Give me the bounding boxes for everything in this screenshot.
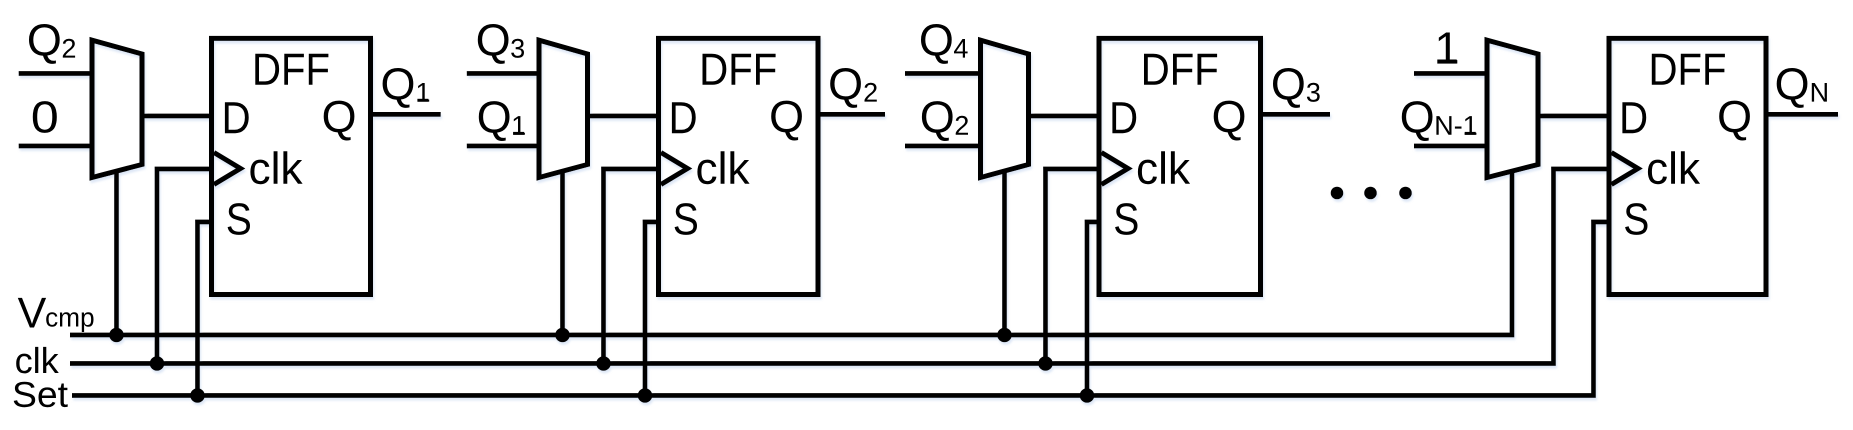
junction dot clk / U3	[1038, 356, 1053, 371]
mux M2	[539, 40, 588, 177]
pin label S (U1)	[228, 203, 250, 235]
pin label clk (U1)	[250, 151, 302, 184]
wire Set bus to U2 S pin	[645, 222, 659, 396]
pin label D (U4)	[1622, 102, 1646, 133]
wire M2 input 2 (row 2)	[467, 144, 539, 149]
flip-flop U2 body (DFF)	[659, 38, 819, 294]
label input 0 (stage 1 row 2)	[33, 101, 57, 133]
pin label Q (U3)	[1214, 101, 1245, 141]
label DFF (U1)	[255, 54, 328, 85]
clk edge triangle U4	[1611, 153, 1638, 185]
label input Q2 (stage 3 row 2)	[922, 101, 968, 141]
pin label S (U2)	[675, 203, 697, 235]
pin label D (U2)	[672, 102, 696, 133]
label input QN-1 (stage 4 row 2)	[1402, 101, 1477, 141]
label output Q3 (stage 3)	[1273, 68, 1320, 108]
junction dot Vcmp / M2 select	[555, 328, 570, 343]
pin label Q (U4)	[1719, 101, 1750, 141]
junction dot clk / U2	[596, 356, 611, 371]
label input Q2 (stage 1 row 1)	[29, 24, 75, 64]
wire U4 Q output	[1766, 112, 1838, 117]
label DFF (U2)	[703, 54, 776, 85]
net clk bus (routes to U4 clk pin)	[70, 169, 1609, 364]
label output Q2 (stage 2)	[830, 68, 877, 108]
flip-flop U1 body (DFF)	[212, 38, 371, 294]
clk edge triangle U3	[1101, 153, 1128, 185]
wire M3 input 2 (row 2)	[905, 144, 981, 149]
label input Q4 (stage 3 row 1)	[921, 24, 968, 64]
pin label D (U1)	[225, 102, 249, 133]
wire M4 input 2 (row 2)	[1414, 144, 1487, 149]
flip-flop U4 body (DFF)	[1609, 38, 1766, 294]
ellipsis dots between stage 3 and stage 4	[1331, 187, 1412, 200]
clk edge triangle U1	[214, 153, 241, 185]
wire U1 Q output	[371, 112, 441, 117]
net Set bus (routes to U4 S pin)	[72, 222, 1609, 396]
net label Set	[14, 382, 68, 408]
clk edge triangle U2	[661, 153, 688, 185]
pin label S (U4)	[1625, 203, 1647, 235]
wire U2 Q output	[818, 112, 885, 117]
pin label clk (U4)	[1648, 151, 1700, 184]
junction dot Set / U1	[190, 388, 205, 403]
wire M3 output to U3 D	[1029, 114, 1100, 119]
wire M2 select to Vcmp bus	[560, 170, 565, 335]
wire M4 output to U4 D	[1538, 114, 1609, 119]
junction dot Set / U2	[638, 388, 653, 403]
mux M1	[92, 40, 142, 177]
wire M4 input 1 (row 1)	[1414, 71, 1487, 76]
wire M1 select to Vcmp bus	[114, 170, 119, 335]
wire M3 select to Vcmp bus	[1002, 170, 1007, 336]
pin label D (U3)	[1112, 102, 1136, 133]
junction dot clk / U1	[150, 356, 165, 371]
net label Vcmp	[18, 298, 94, 332]
mux M4	[1487, 40, 1538, 177]
wire clk bus to U1 clk pin	[157, 169, 212, 364]
wire M2 input 1 (row 1)	[467, 71, 539, 76]
wire M3 input 1 (row 1)	[905, 71, 981, 76]
wire M1 input 1 (row 1)	[19, 71, 92, 76]
flip-flop U3 body (DFF)	[1099, 38, 1261, 294]
label DFF (U4)	[1652, 54, 1725, 85]
pin label clk (U2)	[697, 151, 749, 184]
wire M1 output to U1 D	[142, 114, 212, 119]
junction dot Vcmp / M3 select	[997, 328, 1012, 343]
wire Set bus to U1 S pin	[198, 222, 212, 396]
wire U3 Q output	[1261, 112, 1331, 117]
junction dot Vcmp / M1 select	[109, 328, 124, 343]
wire M2 output to U2 D	[588, 114, 659, 119]
pin label Q (U2)	[771, 101, 802, 141]
net Vcmp bus	[70, 170, 1512, 335]
label input Q1 (stage 2 row 2)	[479, 101, 525, 141]
pin label Q (U1)	[324, 101, 355, 141]
constant label 1 (footed glyph)	[1437, 33, 1457, 64]
pin label S (U3)	[1115, 203, 1137, 235]
label output Q1 (stage 1)	[383, 68, 430, 108]
wire M1 input 2 (row 2)	[19, 144, 92, 149]
net label clk	[16, 347, 59, 374]
mux M3	[981, 40, 1029, 177]
label DFF (U3)	[1144, 54, 1217, 85]
wire clk bus to U2 clk pin	[604, 169, 659, 364]
wire clk bus to U3 clk pin	[1046, 169, 1100, 364]
label input Q3 (stage 2 row 1)	[478, 24, 524, 64]
junction dot Set / U3	[1080, 388, 1095, 403]
pin label clk (U3)	[1138, 151, 1190, 184]
wire Set bus to U3 S pin	[1087, 222, 1099, 396]
label output QN (stage 4)	[1777, 68, 1827, 108]
